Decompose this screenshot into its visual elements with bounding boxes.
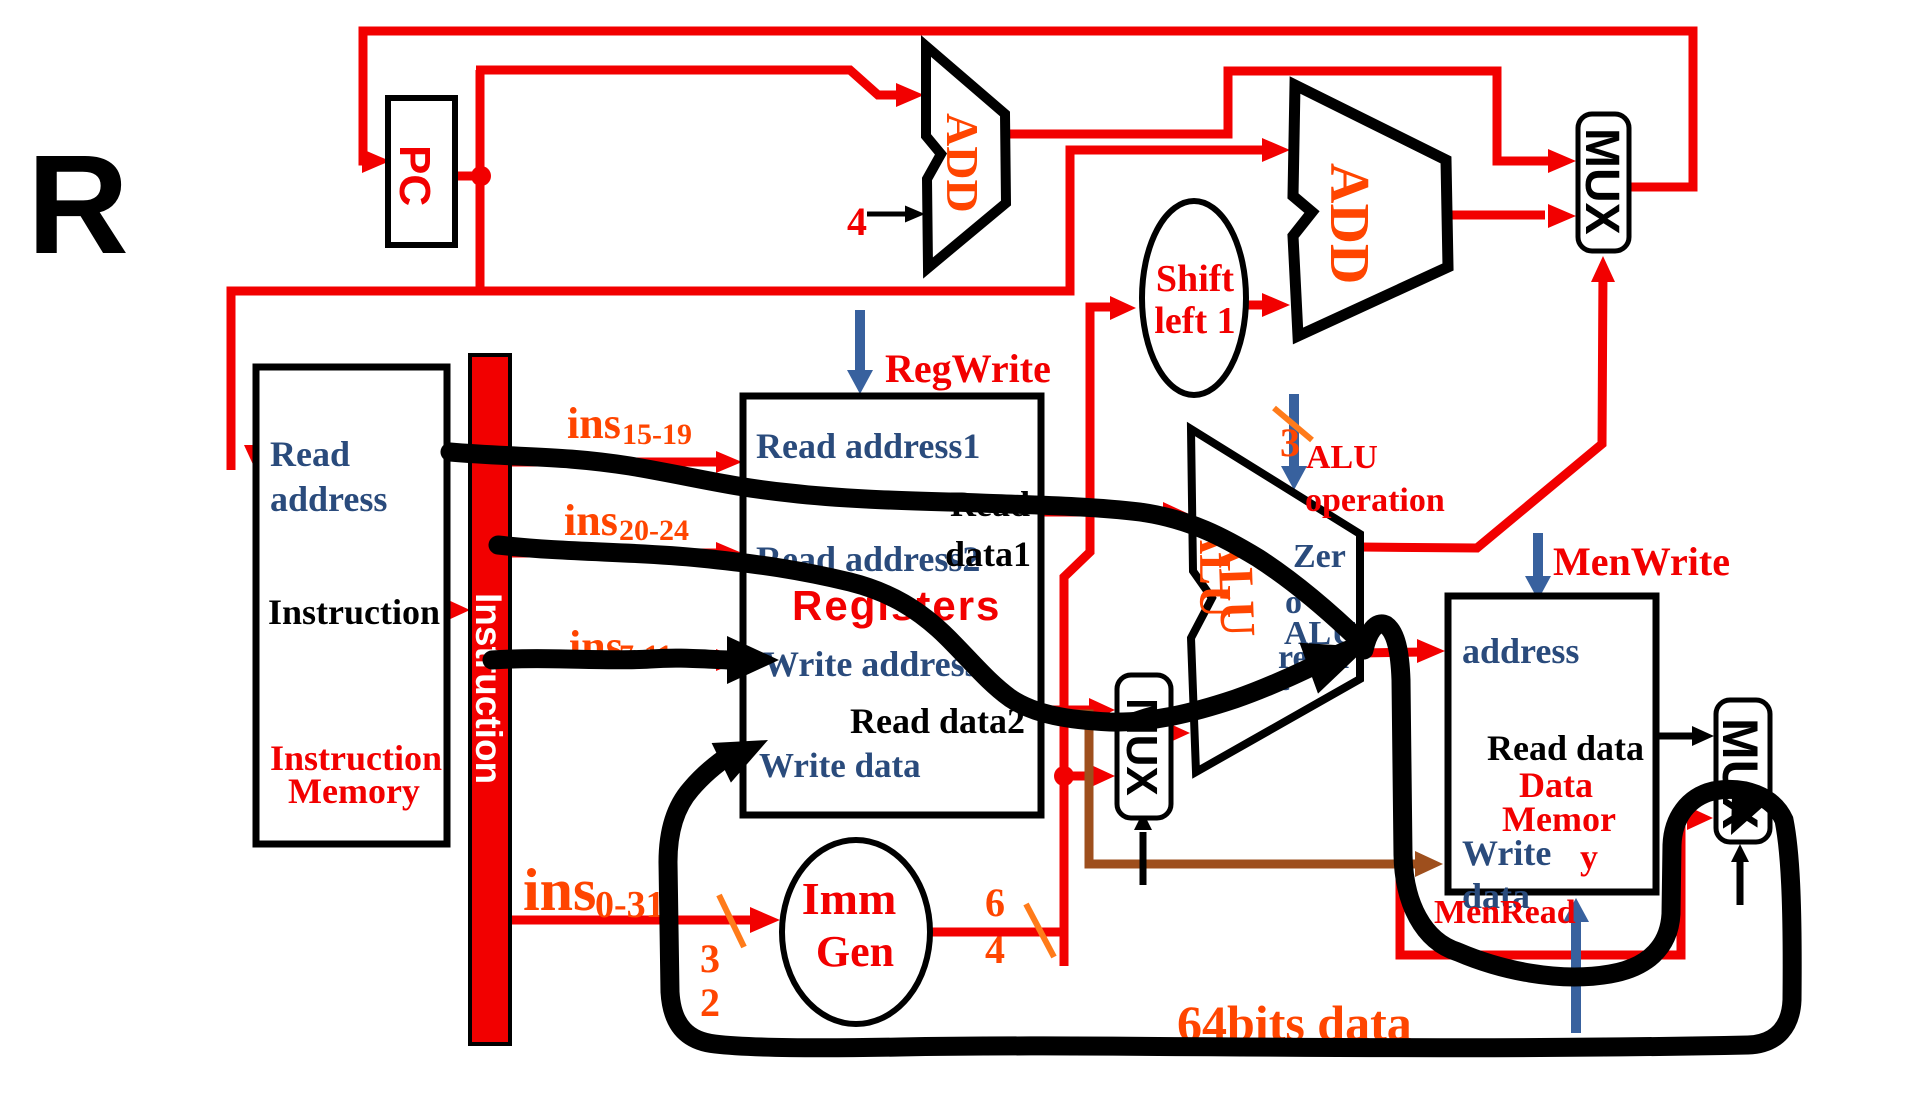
svg-text:y: y: [1580, 837, 1598, 877]
svg-text:6: 6: [985, 880, 1005, 925]
svg-text:Read data2: Read data2: [850, 701, 1025, 741]
svg-text:Zer: Zer: [1293, 538, 1346, 575]
svg-text:15-19: 15-19: [622, 418, 692, 451]
svg-text:operation: operation: [1305, 482, 1445, 519]
svg-text:Memory: Memory: [288, 771, 420, 811]
svg-text:3: 3: [700, 936, 720, 981]
svg-text:Instruction: Instruction: [468, 593, 509, 784]
svg-text:Write: Write: [1462, 833, 1551, 873]
svg-text:MenWrite: MenWrite: [1553, 539, 1730, 584]
svg-text:Shift: Shift: [1156, 258, 1234, 300]
svg-text:MenRead: MenRead: [1434, 894, 1576, 931]
svg-text:Read data: Read data: [1487, 728, 1644, 768]
svg-text:2: 2: [700, 980, 720, 1025]
svg-text:Imm: Imm: [802, 873, 897, 924]
svg-text:left 1: left 1: [1154, 300, 1235, 342]
svg-text:Write data: Write data: [759, 746, 921, 785]
svg-text:data1: data1: [945, 534, 1031, 574]
svg-text:ins: ins: [567, 399, 621, 448]
svg-text:ADD: ADD: [1318, 163, 1380, 284]
svg-text:Read: Read: [270, 434, 350, 474]
svg-text:RegWrite: RegWrite: [885, 346, 1051, 391]
svg-text:ins: ins: [523, 857, 596, 923]
svg-text:ins: ins: [564, 496, 618, 545]
svg-text:Read address1: Read address1: [756, 426, 980, 466]
svg-text:Gen: Gen: [816, 927, 894, 976]
svg-text:ALU: ALU: [1306, 439, 1378, 476]
svg-text:ADD: ADD: [937, 113, 988, 213]
svg-text:20-24: 20-24: [619, 514, 689, 547]
svg-text:4: 4: [847, 199, 867, 244]
svg-text:MUX: MUX: [1575, 128, 1628, 235]
svg-text:R: R: [27, 125, 129, 283]
svg-text:address: address: [270, 479, 387, 519]
svg-text:PC: PC: [390, 145, 439, 206]
svg-text:0-31: 0-31: [595, 884, 665, 926]
svg-text:Instruction: Instruction: [268, 592, 440, 632]
svg-text:address: address: [1462, 631, 1579, 671]
svg-text:4: 4: [985, 927, 1005, 972]
svg-text:Write address: Write address: [763, 644, 979, 684]
